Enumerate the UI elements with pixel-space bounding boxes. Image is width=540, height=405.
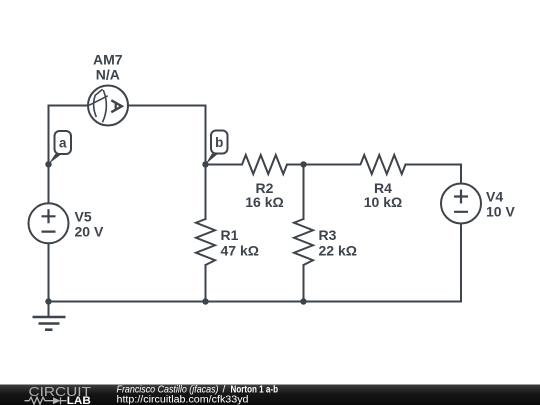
svg-text:V4: V4 <box>486 189 503 205</box>
wire ground stem <box>48 302 50 318</box>
node b <box>202 131 227 168</box>
svg-text:10 V: 10 V <box>486 204 515 220</box>
svg-text:a: a <box>59 136 67 151</box>
svg-text:b: b <box>215 135 223 150</box>
wire bottom rail <box>49 301 462 303</box>
resistor R2 <box>242 155 287 210</box>
svg-text:16 kΩ: 16 kΩ <box>245 194 283 210</box>
resistor R1 <box>196 219 259 265</box>
wire R4 to V4 corner <box>406 165 462 184</box>
svg-text:LAB: LAB <box>67 395 91 405</box>
wire node b to R2 <box>206 164 243 166</box>
svg-text:R3: R3 <box>319 227 337 243</box>
wire R3 junction down <box>303 165 305 220</box>
wire vertical below R1 <box>205 265 207 302</box>
wire R2 to R3 junction and on to R4 <box>287 164 360 166</box>
svg-text:R1: R1 <box>221 227 239 243</box>
svg-text:http://circuitlab.com/cfk33yd: http://circuitlab.com/cfk33yd <box>117 395 249 405</box>
svg-text:N/A: N/A <box>96 67 120 83</box>
resistor R3 <box>294 219 357 265</box>
svg-text:47 kΩ: 47 kΩ <box>221 243 259 259</box>
svg-text:22 kΩ: 22 kΩ <box>319 243 357 259</box>
wire top from node a corner to node b corner <box>49 105 206 107</box>
junction bottom left ground <box>45 298 51 304</box>
svg-text:AM7: AM7 <box>93 52 123 68</box>
svg-text:V5: V5 <box>75 209 92 225</box>
wire left vertical through node a and V5 <box>48 106 50 302</box>
junction bottom R3 <box>300 298 306 304</box>
junction bottom R1 <box>202 298 208 304</box>
footer bar <box>0 385 540 405</box>
wire below V4 <box>460 224 462 302</box>
junction R2-R3-R4 <box>300 161 306 167</box>
wire vertical node b branch upper <box>205 106 207 220</box>
svg-text:10 kΩ: 10 kΩ <box>364 194 402 210</box>
resistor R4 <box>361 155 406 210</box>
voltage source V4 <box>441 184 515 224</box>
CircuitLab logo resistor-diode symbol <box>25 397 67 404</box>
ammeter AM7 <box>88 52 128 126</box>
ground <box>33 317 66 330</box>
footer credit line <box>117 384 279 395</box>
voltage source V5 <box>29 203 104 243</box>
node a <box>45 131 71 168</box>
wire below R3 <box>303 265 305 302</box>
svg-text:20 V: 20 V <box>75 224 104 240</box>
